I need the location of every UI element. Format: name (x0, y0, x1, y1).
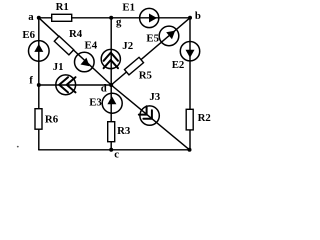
source E6 circle (29, 41, 50, 62)
double arrow of J2 (up) (104, 53, 118, 61)
resistor R6 (35, 109, 42, 130)
arrow head of E3 (up) (107, 96, 116, 104)
wire diagonal d to bottom-right corner (111, 85, 189, 150)
arrow head of E4 (down-right) (81, 58, 93, 70)
svg-text:J1: J1 (53, 61, 64, 73)
svg-text:R2: R2 (198, 112, 211, 124)
stray mark (17, 146, 19, 148)
svg-text:E3: E3 (89, 96, 102, 108)
svg-text:E1: E1 (122, 2, 135, 14)
wire left rail a-f-bottom (38, 18, 40, 150)
svg-text:R1: R1 (56, 1, 69, 13)
resistor R4 (54, 36, 73, 55)
wire right rail b-bottom (189, 18, 191, 150)
arrow head of E5 (up-right) (166, 27, 178, 39)
source E1 circle (140, 8, 159, 27)
node d junction dot (109, 83, 113, 87)
svg-text:b: b (195, 10, 201, 22)
wire middle vertical g-d-c (110, 18, 112, 150)
svg-text:a: a (28, 11, 34, 23)
svg-text:E5: E5 (146, 33, 159, 45)
resistor R5 (124, 57, 143, 75)
current source J3 circle (140, 106, 159, 125)
source E5 circle (159, 26, 179, 46)
svg-text:J2: J2 (122, 40, 133, 52)
wire diagonal b-d (111, 18, 190, 85)
source E2 circle (180, 42, 199, 61)
node f junction dot (37, 83, 41, 87)
svg-text:f: f (29, 75, 33, 87)
svg-text:c: c (114, 148, 119, 160)
svg-text:R3: R3 (117, 125, 131, 137)
bottom-right corner junction dot (188, 148, 192, 152)
resistor R2 (186, 109, 193, 130)
current source J1 circle (56, 75, 76, 95)
svg-text:E2: E2 (172, 59, 185, 71)
wire diagonal a-d (39, 18, 111, 85)
svg-text:J3: J3 (149, 91, 160, 103)
svg-text:E6: E6 (22, 29, 35, 41)
svg-text:d: d (101, 83, 107, 95)
double arrow of J1 (left) (59, 77, 68, 92)
resistor R3 (108, 122, 115, 142)
current source J2 circle (101, 49, 120, 68)
svg-text:R6: R6 (45, 114, 59, 126)
svg-text:R5: R5 (139, 70, 152, 82)
wire bottom rail (39, 149, 190, 151)
source E3 circle (102, 93, 122, 113)
node a junction dot (37, 16, 41, 20)
arrow head of E2 (down) (186, 50, 195, 58)
double arrow of J3 (down-right) (143, 110, 152, 119)
node g junction dot (109, 16, 113, 20)
svg-text:E4: E4 (85, 39, 98, 51)
arrow head of E1 (right) (149, 14, 157, 23)
source E4 circle (75, 52, 95, 72)
svg-text:g: g (116, 16, 122, 28)
wire top rail a-g-b (39, 17, 190, 19)
resistor R1 (52, 14, 72, 21)
node b junction dot (188, 16, 192, 20)
arrow head of E6 (up) (34, 44, 43, 52)
wire middle horizontal f-d (39, 84, 111, 86)
node c junction dot (109, 148, 113, 152)
svg-text:R4: R4 (69, 28, 83, 40)
